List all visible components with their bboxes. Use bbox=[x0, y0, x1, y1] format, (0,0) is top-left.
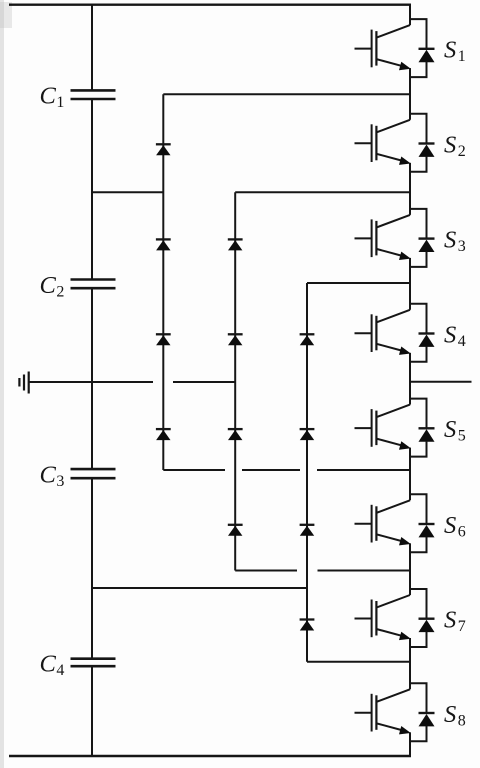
label S1 bbox=[444, 37, 466, 66]
transistor S2 (IGBT) bbox=[355, 120, 411, 165]
wire: switch-chain spine segments bbox=[409, 5, 411, 756]
transistor S3 (IGBT) bbox=[355, 215, 411, 260]
ground bbox=[19, 372, 28, 394]
label S7 bbox=[444, 607, 466, 636]
label S8 bbox=[444, 701, 466, 730]
clamp diode D24 bbox=[228, 525, 243, 536]
label C3 bbox=[40, 462, 65, 491]
label C2 bbox=[40, 272, 65, 301]
capacitor C3 bbox=[71, 469, 116, 478]
label S4 bbox=[444, 321, 466, 350]
label S3 bbox=[444, 226, 466, 255]
transistor S7 (IGBT) bbox=[355, 595, 411, 640]
wire: output line from S4/S5 junction bbox=[410, 381, 472, 383]
clamp diode D34 bbox=[300, 620, 315, 631]
wire: bottom DC rail bbox=[9, 755, 411, 757]
diode DS2 (antiparallel of S2) bbox=[410, 114, 435, 172]
clamp diode D13 bbox=[156, 334, 171, 345]
wire: C1/C2 node to clamp col1 tap bbox=[92, 191, 163, 193]
clamp diode D22 bbox=[228, 334, 243, 345]
diode DS3 (antiparallel of S3) bbox=[410, 209, 435, 267]
wire: clamp column 1 (vertical) bbox=[162, 94, 164, 470]
wire: DC-link bus (vertical, left) bbox=[91, 5, 93, 756]
wire: clamp col2 top to S2/S3 junction bbox=[235, 191, 410, 193]
diode DS1 (antiparallel of S1) bbox=[410, 19, 435, 77]
transistor S1 (IGBT) bbox=[355, 25, 411, 70]
capacitor C1 bbox=[71, 90, 116, 99]
capacitor C2 bbox=[71, 280, 116, 289]
label S2 bbox=[444, 131, 466, 160]
wire: top DC rail bbox=[9, 3, 411, 5]
transistor S8 (IGBT) bbox=[355, 689, 411, 734]
clamp diode D32 bbox=[300, 429, 315, 440]
wire: clamp col1 top to S1/S2 junction bbox=[163, 93, 410, 95]
label S6 bbox=[444, 512, 466, 541]
transistor S4 (IGBT) bbox=[355, 310, 411, 355]
wire: clamp column 3 (vertical) bbox=[306, 283, 308, 662]
clamp diode D33 bbox=[300, 525, 315, 536]
transistor S5 (IGBT) bbox=[355, 405, 411, 450]
clamp diode D11 bbox=[156, 144, 171, 155]
transistor S6 (IGBT) bbox=[355, 500, 411, 545]
wire: clamp col2 bottom to S6/S7 junction (hops col3) bbox=[235, 570, 410, 572]
clamp diode D23 bbox=[228, 429, 243, 440]
clamp diode D14 bbox=[156, 429, 171, 440]
wire: clamp col3 top to S3/S4 junction bbox=[307, 282, 410, 284]
diode DS8 (antiparallel of S8) bbox=[410, 683, 435, 741]
diode DS4 (antiparallel of S4) bbox=[410, 304, 435, 362]
wire: C3/C4 node to clamp col3 tap bbox=[92, 587, 307, 589]
diode DS5 (antiparallel of S5) bbox=[410, 399, 435, 457]
label S5 bbox=[444, 416, 466, 445]
clamp diode D21 bbox=[228, 239, 243, 250]
wire: neutral midline (col1 hop to clamp column 2) bbox=[173, 381, 235, 383]
wire: clamp col1 bottom to S5/S6 junction (hops col2, col3) bbox=[163, 469, 410, 471]
wire: clamp col3 bottom to S7/S8 junction bbox=[307, 661, 410, 663]
clamp diode D12 bbox=[156, 239, 171, 250]
diode DS7 (antiparallel of S7) bbox=[410, 589, 435, 647]
wire: clamp column 2 (vertical) bbox=[234, 192, 236, 570]
wire: neutral midline (ground to bus) bbox=[29, 381, 153, 383]
clamp diode D31 bbox=[300, 334, 315, 345]
diode DS6 (antiparallel of S6) bbox=[410, 494, 435, 552]
capacitor C4 bbox=[71, 659, 116, 667]
label C1 bbox=[40, 83, 65, 112]
label C4 bbox=[40, 651, 65, 680]
